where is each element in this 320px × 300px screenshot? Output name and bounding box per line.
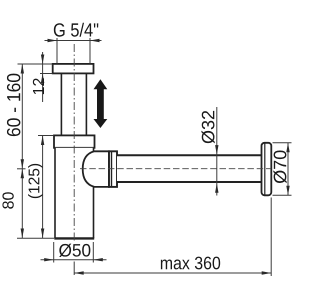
label: cup diameter O50 [59, 244, 90, 257]
extension line G5/4 right [89, 38, 91, 64]
extension line O50 right [92, 242, 94, 263]
dimension line (125) [42, 136, 44, 239]
arrowhead O32 top [215, 145, 218, 155]
arrowhead 80 top [21, 169, 24, 179]
dimension line max360 [74, 272, 271, 274]
horizontal outlet pipe fill [117, 155, 262, 182]
cup body fill [55, 148, 94, 239]
dimension line G5/4 [45, 40, 102, 42]
extension line cup bottom [17, 237, 54, 239]
label: depth 80 [2, 192, 13, 208]
dimension line 80 [21, 169, 23, 238]
adjustability double arrow [94, 79, 108, 128]
compression nut inner face line [111, 151, 113, 187]
arrowhead O70 bottom [286, 186, 289, 196]
extension line max360 right [270, 198, 272, 277]
extension line collar top [38, 135, 54, 137]
cup collar ring [54, 135, 95, 147]
elbow outlet body [83, 151, 109, 187]
dimension line O70 [287, 143, 289, 196]
cup right edge [93, 148, 95, 239]
dimension line 60-160 [21, 64, 23, 169]
arrowhead 12 top [41, 55, 44, 65]
cup left edge [54, 148, 56, 239]
arrowhead (125) top [41, 136, 44, 146]
dimension line 12 [42, 52, 44, 102]
extension line O70 top [273, 142, 292, 144]
wall flange rosette [262, 143, 272, 196]
cup bottom edge [54, 237, 94, 239]
extension line O70 bottom [273, 194, 292, 196]
arrowhead O50 right [93, 258, 103, 261]
arrowhead max360 right [262, 271, 272, 274]
arrowhead G5/4 right [90, 39, 100, 42]
extension line flange bottom [40, 73, 53, 75]
top flange nut of vertical tube [53, 64, 94, 74]
extension line O50 left [53, 242, 55, 263]
arrowhead 80 bottom [21, 229, 24, 239]
label: thread size G 5/4" [54, 23, 98, 37]
arrowhead 12 bottom [41, 74, 44, 84]
wall flange rosette face line [264, 143, 266, 194]
compression nut [109, 151, 117, 187]
horizontal pipe centerline [80, 168, 271, 170]
horizontal outlet pipe bottom edge [117, 181, 262, 183]
label: rosette diameter O70 [273, 150, 286, 183]
label: pipe diameter O32 [201, 111, 214, 144]
arrowhead G5/4 left [48, 39, 58, 42]
label: max 360 length [161, 257, 220, 270]
arrowhead 60-160 bottom [21, 159, 24, 169]
arrowhead max360 left [74, 271, 84, 274]
extension line max360 left centerline stub [73, 262, 75, 276]
label: flange thickness 12 [33, 78, 44, 94]
extension line G5/4 left [56, 38, 58, 64]
label: adjustable height 60 - 160 [7, 74, 20, 136]
vertical adjustable tube left edge [60, 73, 62, 135]
extension line pipe axis left [17, 168, 26, 170]
arrowhead O32 bottom [215, 183, 218, 193]
arrowhead (125) bottom [41, 229, 44, 239]
arrowhead 60-160 top [21, 64, 24, 74]
dimension line O50 [41, 259, 107, 261]
vertical adjustable tube right edge [85, 73, 87, 135]
arrowhead O50 left [44, 258, 54, 261]
label: overall height (125) [28, 164, 42, 198]
dimension line O32 [216, 107, 218, 196]
vertical centerline [73, 44, 75, 242]
arrowhead O70 top [286, 143, 289, 153]
horizontal outlet pipe top edge [117, 154, 262, 156]
extension line flange top [18, 63, 53, 65]
